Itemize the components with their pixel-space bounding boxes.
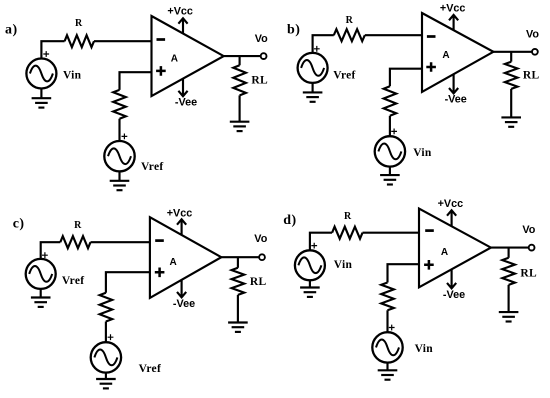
svg-text:R: R [344, 211, 352, 222]
svg-text:A: A [441, 247, 448, 258]
-Vee supply arrow a [178, 79, 187, 97]
svg-text:-Vee: -Vee [175, 97, 197, 109]
svg-text:Vo: Vo [254, 233, 267, 245]
wire junction to RL b [510, 52, 512, 62]
wire resistor to V2 d [386, 310, 388, 332]
wire RL to ground d [508, 285, 510, 312]
resistor R b [334, 29, 365, 41]
ground (V1) b [303, 83, 323, 102]
svg-text:RL: RL [250, 276, 267, 288]
resistor (noninverting) a [113, 90, 126, 119]
ground (RL) a [230, 122, 250, 131]
wire junction to RL a [239, 56, 241, 65]
wire noninverting input d [388, 264, 420, 282]
source V1 (Vref) b [298, 46, 328, 83]
svg-text:-Vee: -Vee [173, 298, 195, 310]
svg-text:+Vcc: +Vcc [167, 6, 193, 18]
source V2 (Vin) b [375, 129, 405, 167]
svg-text:A: A [171, 54, 178, 65]
svg-text:Vin: Vin [334, 259, 353, 271]
op-amp A a [152, 16, 224, 96]
svg-text:+Vcc: +Vcc [440, 2, 466, 14]
wire R to inverting input d [363, 232, 420, 234]
svg-text:+Vcc: +Vcc [438, 198, 464, 210]
-Vee supply arrow b [449, 74, 458, 93]
terminal Vo a [261, 53, 267, 59]
resistor R a [65, 35, 94, 47]
svg-text:a): a) [5, 23, 18, 38]
svg-text:Vin: Vin [63, 70, 82, 82]
wire RL to ground a [239, 95, 241, 121]
wire output to Vo d [491, 247, 529, 249]
svg-text:Vin: Vin [415, 343, 434, 355]
resistor (noninverting) c [100, 293, 113, 322]
svg-text:+Vcc: +Vcc [167, 208, 193, 220]
svg-text:Vo: Vo [255, 33, 268, 45]
wire R to inverting input a [94, 40, 152, 42]
resistor RL a [233, 65, 246, 95]
resistor R d [332, 227, 362, 239]
resistor R c [60, 236, 90, 248]
ground (V2) b [380, 167, 400, 185]
svg-text:Vref: Vref [139, 363, 161, 375]
wire resistor to V2 a [118, 119, 120, 141]
op-amp A b [422, 13, 493, 92]
+Vcc supply arrow a [178, 18, 187, 33]
+Vcc supply arrow d [447, 210, 456, 226]
source V2 (Vref) a [104, 134, 134, 172]
resistor (noninverting) d [381, 283, 394, 311]
svg-text:Vref: Vref [62, 275, 84, 287]
svg-text:A: A [442, 50, 449, 61]
wire junction to RL c [237, 257, 239, 268]
wire noninverting input b [390, 69, 422, 87]
svg-text:RL: RL [523, 69, 540, 81]
resistor RL b [505, 62, 518, 89]
ground (RL) b [501, 117, 521, 126]
wire R to inverting input b [365, 34, 422, 36]
svg-text:R: R [75, 18, 83, 29]
op-amp A c [150, 217, 221, 298]
wire output to Vo c [221, 256, 259, 258]
svg-text:-Vee: -Vee [445, 93, 467, 105]
wire noninverting input c [106, 272, 150, 293]
svg-text:d): d) [283, 213, 296, 228]
wire R to inverting input c [91, 241, 150, 243]
wire resistor to V2 c [105, 322, 107, 343]
svg-text:Vref: Vref [333, 69, 355, 81]
wire output to Vo a [224, 55, 261, 57]
op-amp A d [419, 209, 491, 288]
resistor RL c [232, 268, 245, 295]
svg-text:b): b) [287, 22, 300, 37]
resistor (noninverting) b [384, 86, 397, 116]
svg-text:-Vee: -Vee [443, 289, 465, 301]
svg-text:RL: RL [520, 267, 537, 279]
ground (RL) d [499, 312, 519, 321]
+Vcc supply arrow b [449, 15, 458, 30]
wire junction to RL d [508, 248, 510, 258]
+Vcc supply arrow c [177, 219, 186, 235]
svg-text:RL: RL [251, 74, 268, 86]
svg-text:A: A [169, 257, 176, 268]
wire noninverting input a [120, 72, 152, 90]
svg-text:R: R [346, 15, 354, 26]
ground (RL) c [228, 323, 248, 332]
wire V1 to resistor R c [41, 242, 61, 259]
wire RL to ground b [510, 89, 512, 118]
source V1 (Vref) c [26, 252, 56, 289]
-Vee supply arrow c [177, 280, 186, 298]
ground (V1) a [32, 89, 52, 108]
ground (V2) d [378, 363, 398, 380]
ground (V2) c [96, 373, 116, 389]
ground (V1) c [31, 289, 51, 307]
wire resistor to V2 b [389, 116, 391, 136]
wire V1 to resistor R b [313, 35, 334, 53]
svg-text:c): c) [13, 217, 25, 232]
source V1 (Vin) a [26, 51, 56, 88]
ground (V1) d [300, 280, 320, 297]
svg-text:R: R [74, 220, 82, 231]
wire V1 to resistor R d [310, 233, 332, 251]
ground (V2) a [110, 171, 130, 190]
svg-text:Vref: Vref [141, 161, 163, 173]
svg-text:Vo: Vo [522, 224, 535, 236]
source V2 (Vref) c [91, 334, 121, 372]
resistor RL d [502, 258, 515, 285]
svg-text:Vin: Vin [413, 147, 432, 159]
source V1 (Vin) d [295, 243, 325, 281]
svg-text:Vo: Vo [526, 29, 539, 41]
terminal Vo c [259, 254, 265, 260]
terminal Vo b [532, 49, 538, 55]
terminal Vo d [529, 245, 535, 251]
wire output to Vo b [493, 51, 532, 53]
source V2 (Vin) d [372, 325, 402, 363]
-Vee supply arrow d [447, 269, 456, 288]
wire RL to ground c [237, 295, 239, 323]
wire V1 to resistor R a [41, 41, 64, 58]
